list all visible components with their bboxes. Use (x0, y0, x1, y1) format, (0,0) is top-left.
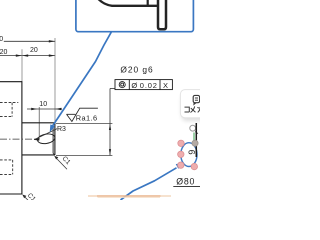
detail content: groove U (158, 0, 166, 29)
shaft bottom edge (22, 154, 55, 156)
centerline (0, 138, 36, 140)
detail content: fillet surface line (97, 0, 157, 6)
dimension line 10 (27, 108, 62, 110)
comment panel shadow (182, 93, 208, 121)
arrowhead 40 right (49, 40, 55, 42)
chamfer C1 top: arrowhead (54, 156, 58, 160)
control point E (191, 163, 197, 169)
dimension line 20-20 (0, 55, 55, 57)
vertical dim line black (195, 123, 197, 157)
svg-text:Ø: Ø (131, 81, 137, 90)
chamfer diagonal bottom (53, 153, 55, 155)
svg-text:Ra1.6: Ra1.6 (76, 114, 98, 123)
dia20 leader jog to FCF (110, 88, 115, 90)
chamfer C1 top: leader (56, 158, 67, 170)
blue leader 1 arrowhead (50, 124, 55, 132)
svg-text:X: X (163, 81, 168, 90)
arrowhead pair at x22 (16, 54, 22, 56)
dimension line 40 (4, 40, 55, 42)
svg-text:20: 20 (0, 49, 7, 56)
svg-text:40: 40 (0, 36, 3, 43)
R3 leader arrowhead (34, 138, 40, 141)
arrowhead at x55 (49, 54, 55, 56)
dia symbol ring (190, 125, 196, 131)
dia symbol tick (195, 132, 198, 134)
comment label (katakana drawn as strokes): ko (185, 107, 190, 112)
dia20 dimension line vertical (109, 89, 111, 156)
shaft end chamfer line (52, 124, 54, 153)
comment icon tail (193, 102, 197, 105)
arrowhead down (109, 149, 111, 155)
tan bar (88, 195, 97, 197)
svg-text:20: 20 (30, 47, 38, 54)
surface finish symbol (67, 108, 98, 121)
sketch circle (selected, blue) (181, 143, 197, 167)
comment label: n (partial at edge) (197, 107, 200, 113)
svg-text:R3: R3 (57, 126, 66, 133)
comment icon bubble (193, 95, 199, 102)
R3 leader (34, 129, 57, 140)
svg-text:0.02: 0.02 (140, 81, 158, 90)
hidden feature rect upper-left (0, 103, 18, 117)
dia80 dimension line (173, 185, 200, 187)
control point C (178, 151, 184, 157)
hidden feature rect lower-left (0, 160, 13, 175)
shaft end face (54, 123, 56, 155)
control point D (178, 162, 184, 168)
detail content: vertical edge stub (147, 0, 149, 6)
arrowhead up (109, 124, 111, 130)
dia20 top extension line (56, 123, 112, 125)
arrowhead 10 right (55, 108, 61, 110)
control point A (178, 140, 184, 146)
dia20 bottom extension line (56, 155, 112, 157)
chamfer diagonal top (53, 123, 55, 125)
svg-text:6: 6 (187, 150, 197, 155)
FCF frame (115, 80, 172, 90)
flange top edge (0, 81, 22, 83)
extension line x22 (21, 49, 23, 81)
concentricity symbol (119, 82, 125, 88)
flange bottom edge (0, 193, 22, 195)
blue leader 2 arrowhead (176, 163, 184, 169)
extension line x55 (54, 38, 56, 123)
svg-text:Ø20 g6: Ø20 g6 (120, 64, 153, 74)
shaft top edge (22, 122, 55, 124)
FCF divider 2 (159, 80, 161, 90)
svg-text:10: 10 (39, 101, 47, 108)
detail view blue box (76, 0, 193, 32)
FCF divider 1 (128, 80, 130, 90)
comment label: me (191, 106, 196, 112)
sheet background (0, 0, 200, 200)
extension line x39 (38, 107, 40, 136)
flange right edge (21, 81, 23, 194)
groove oval (37, 133, 56, 145)
chamfer C1 bottom: arrowhead (22, 195, 26, 199)
control point B (gray) (192, 140, 198, 146)
blue leader 2 (121, 168, 177, 200)
chamfer C1 bottom: leader (24, 196, 29, 201)
blue leader 1 (52, 32, 111, 127)
arrowhead 10 left (31, 108, 37, 110)
svg-text:Ø80: Ø80 (176, 177, 195, 187)
green sketch line (193, 133, 195, 144)
comment panel (180, 90, 208, 118)
